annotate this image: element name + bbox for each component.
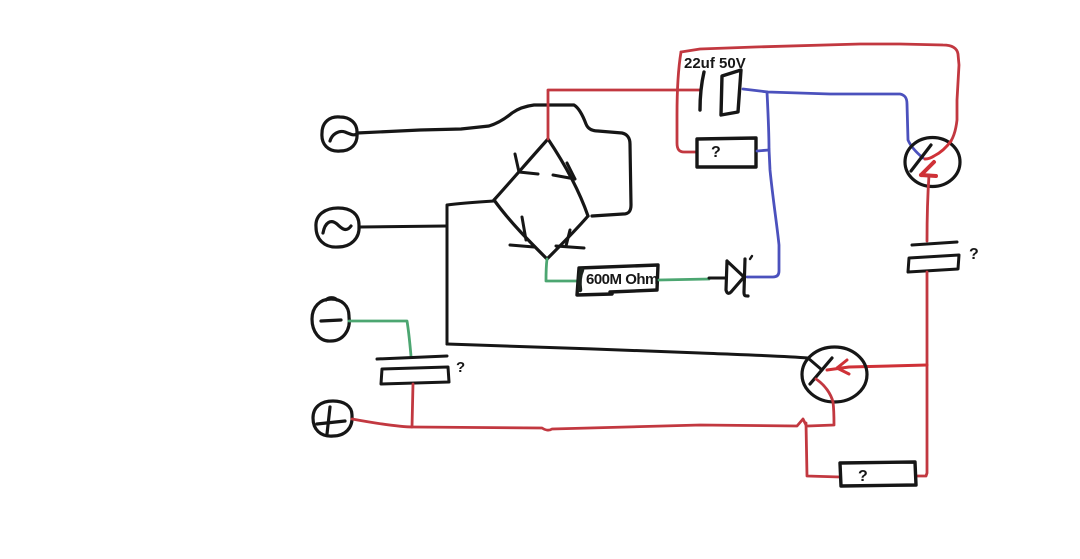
wire T1 to bridge right node (black hump around bridge) xyxy=(357,105,631,216)
svg-text:600M Ohm: 600M Ohm xyxy=(586,271,658,288)
Q2 emitter red curve xyxy=(808,379,834,426)
bridge diode arrow lower-left xyxy=(510,217,534,247)
resistor R-bottom (?) box xyxy=(840,462,916,486)
wire green R1 to diode xyxy=(659,279,709,280)
wire red Q1 emitter to capacitor C3 xyxy=(927,175,929,241)
svg-text:?: ? xyxy=(711,144,721,161)
terminal T1 (top input) xyxy=(322,117,357,151)
wire green bridge bottom to R1 xyxy=(546,259,577,281)
capacitor C2 (?) bottom-left xyxy=(377,356,449,384)
wire black to diode anode xyxy=(709,277,726,280)
wire blue C1 to Q1 base xyxy=(743,89,923,158)
terminal T2 (AC input) xyxy=(316,208,359,247)
svg-text:?: ? xyxy=(858,468,868,485)
wire red top rail to Q1 collector xyxy=(681,44,959,141)
terminal T4 (plus) xyxy=(313,401,352,436)
wire green T3 to capacitor xyxy=(349,321,411,356)
diode D1 xyxy=(726,256,752,296)
svg-text:?: ? xyxy=(969,246,979,263)
svg-text:22uf 50V: 22uf 50V xyxy=(684,55,746,72)
wire red C2 to bottom rail xyxy=(412,384,413,427)
wire blue stub to R-top xyxy=(757,150,769,151)
capacitor C3 (?) right xyxy=(908,242,959,272)
wire T2 to bridge left node xyxy=(360,226,447,227)
bridge diode arrow lower-right xyxy=(556,230,584,248)
svg-text:?: ? xyxy=(456,359,465,376)
wire blue vertical to diode xyxy=(747,92,779,277)
transistor Q1 xyxy=(905,138,960,187)
capacitor C1 22uf 50V xyxy=(700,70,741,115)
R1 left-edge overdraw mark xyxy=(579,270,582,290)
Q1 collector red inside with arrow xyxy=(925,141,951,159)
wire red vertical down to R-top box xyxy=(677,52,697,152)
wire red Q2 collector with arrow xyxy=(827,360,927,374)
junction red with down lead xyxy=(806,423,840,477)
bridge diode arrow upper-right xyxy=(553,163,575,179)
wire red bridge top to cap node xyxy=(547,91,550,139)
wire long bottom black to Q2 base xyxy=(447,344,822,370)
bridge rectifier diamond xyxy=(494,139,588,259)
resistor R1 600M Ohm xyxy=(577,265,658,295)
resistor R-top (?) box xyxy=(697,138,756,167)
wire red horizontal to capacitor C1 xyxy=(548,89,700,92)
wire vertical junction xyxy=(447,201,494,344)
transistor Q2 xyxy=(802,347,867,402)
terminal T3 (minus) xyxy=(312,298,349,341)
bridge diode arrow upper-left xyxy=(515,154,538,174)
wire red C3 down to R-bottom xyxy=(916,272,927,476)
wire red bottom rail T4 to Q2 emitter junction xyxy=(352,419,806,430)
